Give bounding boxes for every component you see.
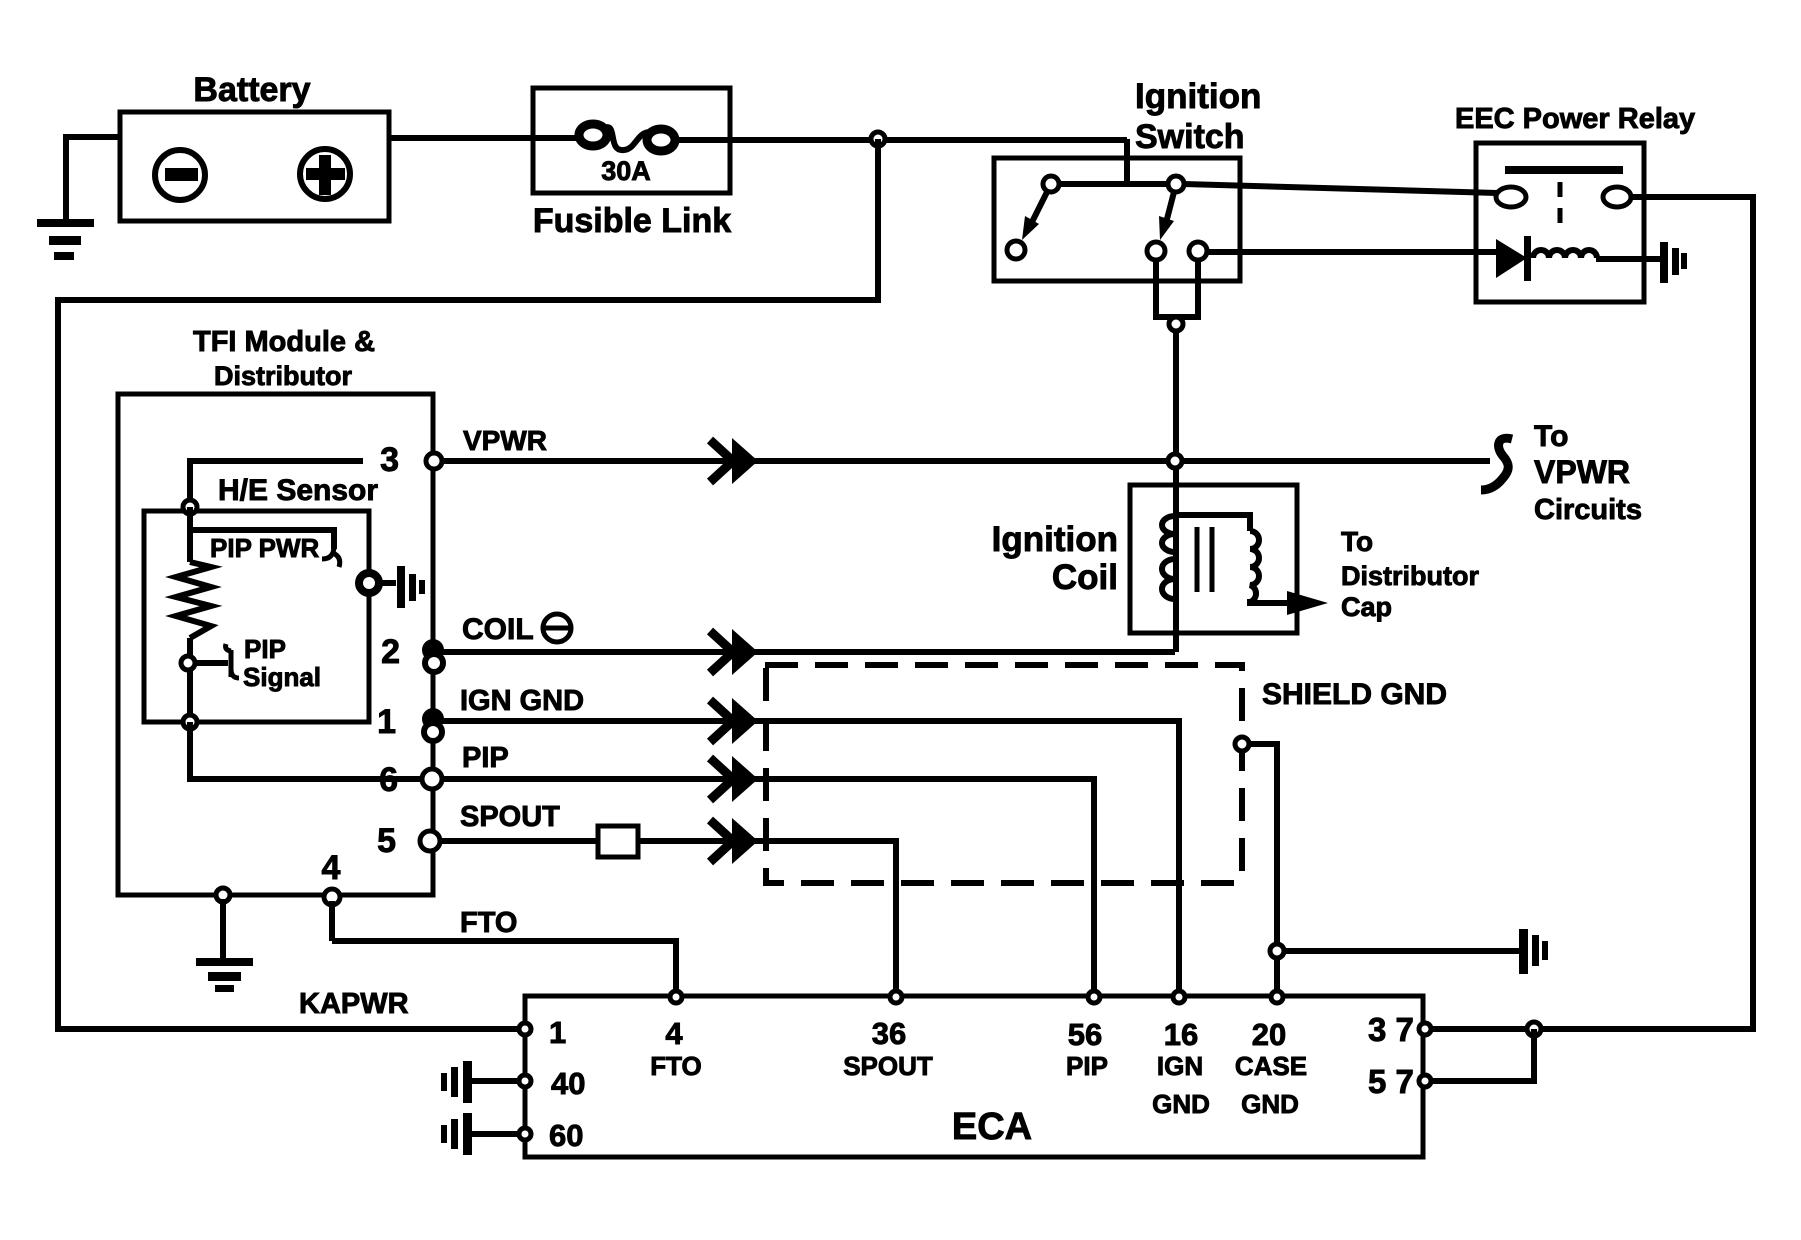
node PIP signal (181, 656, 195, 670)
svg-text:FTO: FTO (650, 1051, 702, 1081)
svg-text:GND: GND (1241, 1089, 1299, 1119)
fusible link F1 (533, 88, 730, 193)
wire fusible link to ignition switch feed (672, 139, 1127, 186)
wire switch outputs merge to VPWR node (1156, 259, 1198, 652)
node VPWR junction (1168, 454, 1182, 468)
coil secondary winding (1175, 515, 1250, 531)
TFI module and distributor U1 (118, 326, 433, 895)
svg-text:40: 40 (551, 1066, 585, 1101)
TFI pin 4 (322, 849, 341, 905)
ignition coil T1 (992, 485, 1297, 633)
label To Distributor Cap (1341, 526, 1479, 622)
wire battery positive to fusible link (389, 135, 582, 141)
VPWR circuits break symbol (1481, 438, 1512, 490)
SPOUT inline connector (598, 826, 638, 857)
coil negative symbol (543, 614, 571, 642)
svg-text:FTO: FTO (460, 907, 517, 939)
wire ignition switch start contact to EEC relay coil diode (1207, 249, 1496, 255)
node H/E sensor top (183, 500, 197, 514)
wire PIP signal tap (196, 660, 228, 666)
arrow PIP (710, 756, 758, 802)
EEC power relay K1 (1455, 103, 1695, 302)
PIP signal T terminal (226, 644, 239, 678)
wire relay coil to ground (1596, 256, 1660, 262)
wire case ground to ground symbol (1285, 948, 1519, 954)
TFI ground (196, 958, 253, 992)
svg-text:Distributor: Distributor (1341, 561, 1479, 591)
arrow COIL (710, 629, 758, 675)
wire node to ECA pin 57 (1433, 1029, 1534, 1081)
svg-text:SPOUT: SPOUT (843, 1051, 933, 1081)
svg-text:PIP: PIP (1066, 1051, 1108, 1081)
wire battery negative to ground (66, 137, 120, 222)
svg-text:Ignition: Ignition (992, 520, 1118, 559)
wire TFI case to ground (220, 899, 226, 958)
svg-text:30A: 30A (601, 156, 651, 186)
TFI pin 2 (381, 633, 444, 672)
diode CR1 in relay (1496, 236, 1531, 281)
svg-text:Fusible Link: Fusible Link (533, 202, 731, 240)
wire ECA pin 40 to ground (472, 1078, 519, 1084)
ignition switch S1 (994, 77, 1261, 281)
label To VPWR Circuits (1534, 420, 1642, 526)
svg-text:20: 20 (1252, 1017, 1286, 1052)
svg-text:ECA: ECA (952, 1106, 1032, 1148)
svg-text:To: To (1534, 420, 1568, 453)
svg-text:Battery: Battery (193, 71, 310, 109)
svg-text:KAPWR: KAPWR (299, 988, 409, 1020)
ECA pin 16 IGN GND (1152, 991, 1210, 1119)
svg-text:IGN GND: IGN GND (460, 685, 584, 717)
svg-text:EEC Power Relay: EEC Power Relay (1455, 103, 1695, 135)
wire KAPWR from junction down left side to ECA pin 1 (58, 139, 878, 1029)
svg-text:SPOUT: SPOUT (460, 801, 560, 833)
svg-text:2: 2 (381, 633, 400, 671)
node switch output junction (1169, 317, 1183, 331)
wire TFI pin 3 internal to H/E sensor (190, 461, 363, 511)
wire resistor to PIP signal node (187, 638, 193, 722)
arrow to distributor cap (1287, 591, 1328, 615)
wire COIL (443, 649, 1175, 655)
wire ignition switch run contact to EEC relay contact (1184, 184, 1497, 193)
svg-text:IGN: IGN (1157, 1051, 1203, 1081)
battery ground (37, 219, 94, 260)
svg-text:1: 1 (377, 703, 396, 741)
wire PIP (441, 779, 1094, 993)
ECA pin 40 ground (441, 1061, 472, 1103)
ECA pin 60 ground (441, 1113, 472, 1155)
ECA pin 60 (519, 1118, 583, 1153)
relay coil winding (1533, 250, 1597, 258)
svg-text:H/E Sensor: H/E Sensor (218, 474, 378, 507)
node TFI case ground (216, 888, 230, 902)
case ground symbol (1519, 929, 1548, 974)
svg-text:1: 1 (549, 1015, 566, 1050)
svg-text:SHIELD GND: SHIELD GND (1262, 678, 1447, 711)
coil primary winding (1162, 516, 1175, 599)
svg-text:Signal: Signal (243, 662, 321, 692)
svg-text:VPWR: VPWR (463, 425, 547, 456)
H/E sensor (144, 474, 378, 722)
svg-text:PIP PWR: PIP PWR (210, 533, 320, 563)
svg-text:Circuits: Circuits (1534, 494, 1642, 526)
svg-text:Ignition: Ignition (1135, 77, 1261, 116)
TFI pin 5 (377, 822, 440, 860)
wire secondary to distributor cap arrow (1250, 599, 1290, 603)
wire to internal ground (378, 580, 396, 586)
svg-text:4: 4 (322, 849, 341, 887)
svg-text:Switch: Switch (1135, 118, 1245, 156)
battery B1 (120, 71, 389, 221)
svg-text:CASE: CASE (1235, 1051, 1307, 1081)
svg-text:3 7: 3 7 (1368, 1011, 1414, 1048)
ECA pin 37 (1368, 1011, 1431, 1048)
ECA pin 36 SPOUT (843, 991, 933, 1081)
ECA pin 1 KAPWR (519, 1015, 566, 1050)
ECA pin 56 PIP (1066, 991, 1108, 1081)
wire VPWR (442, 458, 1490, 464)
svg-text:16: 16 (1164, 1017, 1198, 1052)
svg-text:To: To (1341, 526, 1373, 557)
wire FTO (332, 901, 676, 993)
svg-text:VPWR: VPWR (1534, 454, 1630, 490)
svg-text:56: 56 (1068, 1017, 1102, 1052)
svg-text:4: 4 (665, 1016, 683, 1051)
arrow VPWR (710, 438, 758, 484)
svg-text:60: 60 (549, 1118, 583, 1153)
shield dashed outline (765, 665, 1242, 883)
arrow SPOUT (710, 818, 758, 864)
node H/E sensor bottom (183, 715, 197, 729)
svg-text:GND: GND (1152, 1089, 1210, 1119)
node shield ground (1235, 737, 1249, 751)
wire node to resistor (187, 507, 193, 562)
node junction below fusible link (871, 132, 885, 146)
arrow IGN GND (710, 698, 758, 744)
svg-text:36: 36 (872, 1016, 906, 1051)
svg-text:PIP: PIP (244, 634, 286, 664)
node case ground branch (1270, 944, 1284, 958)
ECA pin 20 CASE GND (1235, 991, 1307, 1119)
coil core (1197, 527, 1212, 592)
resistor R1 pickup (176, 562, 211, 638)
ECA pin 4 FTO (650, 991, 702, 1081)
node H/E sensor ground tap (359, 573, 379, 593)
svg-text:Coil: Coil (1052, 558, 1118, 597)
svg-text:5: 5 (377, 822, 396, 860)
wire SPOUT (441, 841, 896, 993)
TFI pin 3 (380, 441, 442, 479)
svg-text:6: 6 (379, 761, 398, 799)
wire shield node to case ground line (1248, 744, 1277, 993)
wire ECA pin 60 to ground (472, 1131, 519, 1137)
TFI internal ground (397, 566, 425, 608)
svg-text:TFI Module &: TFI Module & (193, 326, 375, 358)
ECA pin 57 (1368, 1063, 1431, 1100)
svg-text:PIP: PIP (462, 742, 509, 774)
TFI pin 1 (377, 703, 444, 741)
svg-text:Cap: Cap (1341, 592, 1392, 622)
svg-text:Distributor: Distributor (214, 361, 352, 391)
wire IGN GND (442, 721, 1179, 993)
wire relay output down right side to ECA pin 37 (1433, 197, 1753, 1029)
PIP PWR hook (322, 546, 340, 567)
svg-text:3: 3 (380, 441, 399, 479)
node relay output to pins 37/57 (1527, 1022, 1541, 1036)
ECA module (525, 996, 1423, 1157)
svg-text:COIL: COIL (462, 613, 534, 646)
svg-text:5 7: 5 7 (1368, 1063, 1414, 1100)
relay ground (1660, 242, 1687, 283)
TFI pin 6 (379, 761, 442, 799)
ECA pin 40 (519, 1066, 585, 1101)
wire PIP PWR tap (190, 530, 334, 549)
wire H/E sensor to TFI pin 6 (190, 722, 424, 779)
